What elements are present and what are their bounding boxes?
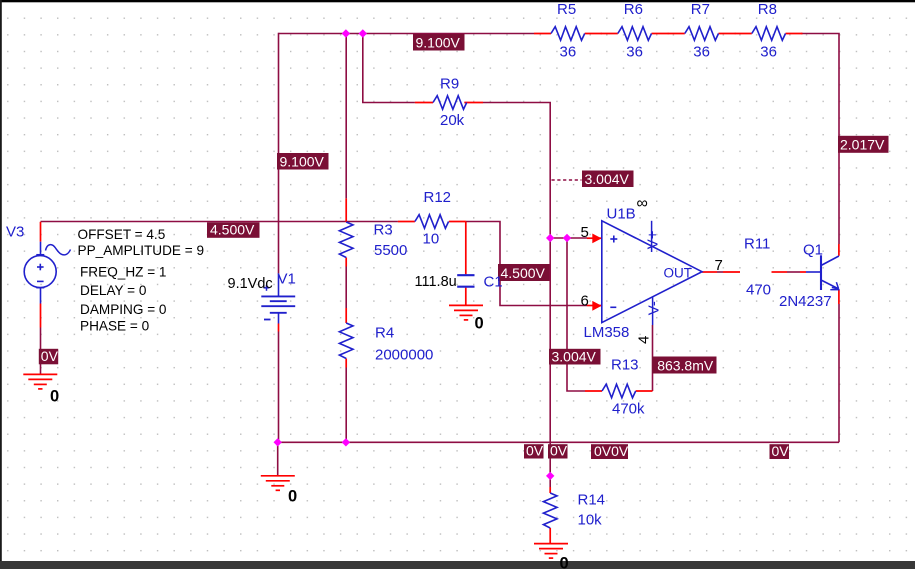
label R12: [424, 189, 452, 206]
wire: R9 output long vertical down to R14: [483, 103, 550, 488]
wire: plus-input horizontal to op-amp pin 5: [550, 237, 587, 239]
net voltage label 3.004V lower: [549, 348, 601, 364]
wire: C1 red leads: [465, 222, 467, 306]
net voltage label 3.004V top: [582, 171, 634, 188]
label R9 value 20k: [440, 112, 465, 129]
junction dot above R14: [546, 472, 554, 480]
label R13 value 470k: [612, 401, 645, 418]
svg-text:R7: R7: [691, 1, 710, 18]
wire: op-amp output / R11 red leads: [702, 271, 806, 273]
pin number 6: [581, 292, 589, 309]
svg-text:R9: R9: [440, 76, 459, 93]
junction dot bottom rail R4: [342, 438, 350, 446]
wire: V3 red pin leads: [40, 222, 42, 328]
label R14: [578, 492, 606, 509]
wire: R12 output to op-amp pin 6 (minus input): [466, 222, 587, 306]
svg-text:0V: 0V: [550, 442, 568, 458]
svg-text:111.8u: 111.8u: [415, 274, 457, 290]
label R3 value 5500: [374, 242, 407, 259]
label C1: [484, 274, 503, 291]
ground net 0 label V1: [288, 488, 297, 506]
wire: R12 red leads: [398, 221, 466, 223]
svg-text:R5: R5: [557, 1, 576, 18]
resistor R9: [433, 96, 467, 110]
pin number 7: [715, 257, 723, 274]
label R4 value 2000000: [375, 347, 433, 364]
svg-text:∞: ∞: [637, 195, 648, 212]
wire: V1 red lead: [278, 324, 280, 332]
label R4: [375, 325, 394, 342]
svg-text:6: 6: [581, 292, 589, 309]
svg-text:5: 5: [581, 224, 589, 241]
label V3: [6, 224, 24, 241]
wire: bottom ground rail (0V): [278, 441, 839, 443]
wire: pin5 red lead and input arrow: [587, 234, 602, 244]
label Q1 value 2N4237: [779, 293, 832, 310]
V3 parameter text block: [78, 227, 205, 333]
junction dot top rail B: [359, 29, 367, 37]
resistor R12: [415, 215, 449, 229]
battery V1: [261, 273, 295, 323]
resistor R3: [339, 222, 353, 258]
svg-text:R13: R13: [611, 357, 639, 374]
wire: V3 to ground segment: [40, 328, 42, 375]
pin number 5: [581, 224, 589, 241]
svg-text:0: 0: [50, 388, 59, 406]
svg-text:PHASE = 0: PHASE = 0: [80, 318, 150, 333]
label R12 value 10: [423, 231, 440, 248]
svg-text:10k: 10k: [578, 512, 603, 529]
ground under R14: [534, 544, 568, 559]
svg-text:0: 0: [560, 555, 569, 569]
net voltage label 4.500V mid: [498, 264, 550, 281]
wire: V1 branch vertical bottom: [278, 332, 280, 443]
bottom status strip: [0, 561, 915, 569]
svg-text:Q1: Q1: [803, 242, 823, 259]
net voltage label 0V bottom right: [770, 443, 790, 459]
wire: V3 output horizontal net (4.500V): [41, 221, 398, 223]
left window border bar: [0, 0, 2, 569]
label V1: [278, 271, 296, 288]
svg-text:R4: R4: [375, 325, 394, 342]
svg-text:0: 0: [288, 488, 297, 506]
junction dot plus-input left: [546, 234, 554, 242]
svg-text:LM358: LM358: [584, 324, 630, 341]
label Q1: [803, 242, 823, 259]
net voltage label 2.017V: [838, 136, 889, 153]
ground net 0 label R14: [560, 555, 569, 569]
transistor Q1: [806, 255, 840, 290]
net voltage label 9.100V left: [277, 153, 329, 170]
svg-text:36: 36: [760, 44, 777, 61]
wire: Q1 collector/emitter red leads: [838, 244, 840, 304]
svg-text:20k: 20k: [440, 112, 465, 129]
label LM358: [584, 324, 630, 341]
svg-text:0V: 0V: [772, 443, 790, 459]
wire: op-amp output segments: [717, 271, 800, 273]
junction dot bottom rail left: [274, 438, 282, 446]
svg-text:R3: R3: [374, 222, 393, 239]
label R6 and value 36: [624, 1, 643, 60]
net voltage label 0V0V bottom: [591, 443, 629, 459]
svg-text:470k: 470k: [612, 401, 645, 418]
svg-text:3.004V: 3.004V: [552, 348, 597, 364]
svg-text:V-: V-: [645, 301, 662, 315]
label R9: [440, 76, 459, 93]
svg-text:7: 7: [715, 257, 723, 274]
label R3: [374, 222, 393, 239]
svg-text:0: 0: [475, 315, 484, 333]
svg-text:DAMPING = 0: DAMPING = 0: [80, 302, 167, 317]
svg-text:4: 4: [636, 336, 653, 344]
ground under V1 branch: [261, 476, 295, 491]
svg-text:OUT: OUT: [664, 266, 693, 281]
resistor R6: [618, 27, 652, 41]
svg-text:C1: C1: [484, 274, 503, 291]
wire: R13 red leads: [585, 390, 653, 392]
ground under C1: [449, 305, 483, 320]
label R14 value 10k: [578, 512, 603, 529]
ground under V3: [23, 374, 57, 389]
wire: R13 right up to op-amp V- pin 4: [652, 325, 654, 391]
svg-text:2.017V: 2.017V: [840, 137, 885, 153]
label R11: [744, 236, 770, 253]
capacitor C1: [457, 275, 474, 287]
wire: R5-R8 red leads: [534, 33, 803, 35]
svg-text:R11: R11: [744, 236, 770, 253]
svg-text:R8: R8: [758, 1, 777, 18]
wire: pin6 red lead and input arrow: [587, 301, 602, 311]
top window border bar: [0, 0, 915, 2]
svg-text:36: 36: [693, 44, 710, 61]
svg-text:V3: V3: [6, 224, 24, 241]
svg-text:9.100V: 9.100V: [416, 34, 461, 50]
svg-text:4.500V: 4.500V: [210, 222, 255, 238]
net voltage label 0V bottom 1: [524, 442, 544, 458]
net voltage label 0V under V3: [39, 348, 59, 364]
svg-text:0V0V: 0V0V: [594, 443, 629, 459]
svg-text:OFFSET = 4.5: OFFSET = 4.5: [78, 227, 166, 242]
wire: R14 red leads: [549, 487, 551, 543]
svg-text:PP_AMPLITUDE = 9: PP_AMPLITUDE = 9: [78, 243, 205, 258]
label R13: [611, 357, 639, 374]
svg-text:5500: 5500: [374, 242, 407, 259]
wire: stub to ground below bottom rail: [277, 442, 279, 475]
net voltage label 9.100V top: [413, 34, 465, 51]
label R5 and value 36: [557, 1, 576, 60]
svg-text:9.1Vdc: 9.1Vdc: [228, 276, 273, 292]
op-amp U1B: [602, 221, 702, 325]
svg-text:FREQ_HZ = 1: FREQ_HZ = 1: [80, 264, 167, 279]
label U1B: [607, 206, 636, 223]
junction dot plus-input right: [563, 234, 571, 242]
svg-text:36: 36: [626, 44, 643, 61]
resistor R14: [543, 493, 557, 528]
svg-text:3.004V: 3.004V: [585, 171, 630, 187]
svg-text:0V: 0V: [526, 442, 544, 458]
svg-text:R12: R12: [424, 189, 452, 206]
svg-text:2000000: 2000000: [375, 347, 433, 364]
wire: top rail right + right vertical (2.017V) to Q1 collector: [801, 34, 839, 245]
svg-text:9.100V: 9.100V: [280, 153, 325, 169]
svg-text:470: 470: [746, 282, 771, 299]
svg-text:2N4237: 2N4237: [779, 293, 832, 310]
label R11 value 470: [746, 282, 771, 299]
svg-text:10: 10: [423, 231, 440, 248]
svg-text:4.500V: 4.500V: [501, 265, 546, 281]
wire: Q1 emitter down to bottom rail: [838, 304, 840, 442]
svg-text:U1B: U1B: [607, 206, 636, 223]
resistor R4: [339, 323, 353, 359]
label OUT: [664, 266, 693, 281]
svg-text:0V: 0V: [41, 348, 59, 364]
wire: R9 red leads: [415, 102, 483, 104]
net voltage label 0V bottom 2: [548, 442, 568, 458]
svg-text:36: 36: [560, 44, 577, 61]
svg-text:V+: V+: [644, 230, 661, 249]
wire: R3 R4 red leads: [345, 198, 347, 367]
wire: junction down to R13 left: [567, 238, 585, 391]
op-amp infinity gain symbol: [637, 195, 648, 212]
resistor R7: [685, 27, 719, 41]
label C1 value 111.8u: [415, 274, 457, 290]
ground net 0 label C1: [475, 315, 484, 333]
label R8 and value 36: [758, 1, 777, 60]
resistor R5: [551, 27, 585, 41]
svg-text:863.8mV: 863.8mV: [657, 357, 714, 373]
label V1 value 9.1Vdc: [228, 276, 273, 292]
wire: V1 branch vertical top: [278, 33, 280, 274]
wire: top junction down to R9: [363, 34, 415, 103]
net voltage label 863.8mV: [652, 357, 717, 374]
junction dot top rail A: [342, 29, 350, 37]
wire: top rail left (9.100V): [279, 33, 535, 35]
resistor R8: [752, 27, 786, 41]
voltage source V3: [24, 242, 70, 304]
wire: dashed label leader to 3.004V: [552, 179, 582, 181]
wire: R3 branch vertical segments: [345, 34, 347, 443]
ground net 0 label V3: [50, 388, 59, 406]
svg-text:V1: V1: [278, 271, 296, 288]
svg-text:DELAY = 0: DELAY = 0: [80, 283, 147, 298]
svg-text:R14: R14: [578, 492, 606, 509]
net voltage label 4.500V left: [207, 222, 260, 238]
svg-text:R6: R6: [624, 1, 643, 18]
pin number 4 rotated: [636, 336, 653, 344]
resistor R13: [602, 384, 636, 398]
label R7 and value 36: [691, 1, 710, 60]
